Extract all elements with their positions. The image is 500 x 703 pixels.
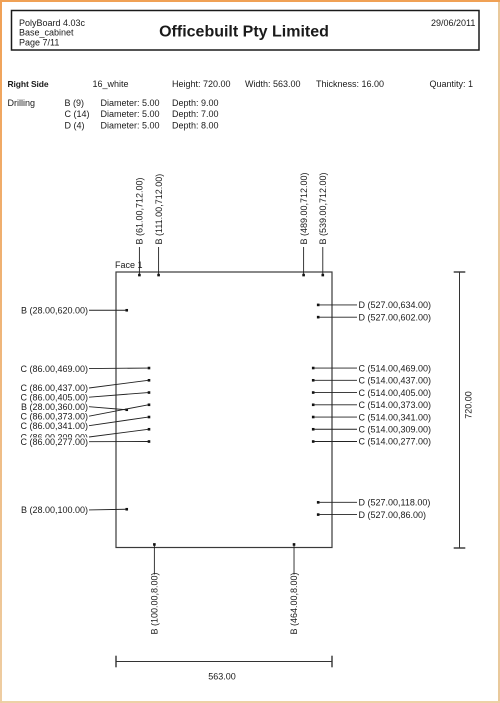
hole C (514.00,277.00): label	[359, 437, 432, 447]
hole C (86.00,373.00): leader	[89, 405, 148, 416]
page border top	[0, 0, 500, 2]
hole C (514.00,309.00): leader	[314, 428, 357, 430]
svg-text:C (514.00,277.00): C (514.00,277.00)	[359, 437, 432, 447]
svg-text:B (28.00,100.00): B (28.00,100.00)	[21, 505, 88, 515]
hole B (61.00,712.00): label	[135, 177, 145, 244]
hole B (489.00,712.00): leader	[303, 247, 305, 275]
header text Base_cabinet	[19, 28, 74, 38]
hole C (86.00,341.00): leader	[89, 417, 148, 426]
svg-text:C (514.00,405.00): C (514.00,405.00)	[359, 388, 432, 398]
hole D (527.00,634.00): label	[359, 300, 432, 310]
svg-text:Diameter: 5.00: Diameter: 5.00	[101, 109, 160, 119]
hole C (514.00,469.00): leader	[314, 367, 357, 369]
svg-text:563.00: 563.00	[208, 672, 236, 682]
hole C (86.00,469.00): leader	[89, 367, 148, 370]
hole B (28.00,100.00): dot	[125, 508, 128, 511]
hole C (86.00,309.00): dot	[148, 428, 151, 431]
header box	[12, 11, 480, 51]
hole B (539.00,712.00): dot	[321, 274, 324, 277]
hole C (514.00,277.00): leader	[314, 441, 357, 443]
info row: Quantity	[430, 79, 474, 89]
info row: 16_white	[93, 79, 129, 89]
svg-text:D (527.00,118.00): D (527.00,118.00)	[359, 498, 431, 508]
vertical dimension text 720.00	[464, 391, 474, 419]
hole C (86.00,309.00): leader	[89, 429, 148, 437]
svg-text:Base_cabinet: Base_cabinet	[19, 28, 74, 38]
hole B (28.00,360.00): dot	[125, 408, 128, 411]
svg-text:Face 1: Face 1	[115, 260, 143, 270]
hole B (464.00,8.00): label	[289, 572, 299, 634]
horizontal dimension line 563.00	[116, 656, 332, 668]
svg-text:Officebuilt Pty Limited: Officebuilt Pty Limited	[159, 24, 329, 41]
hole C (514.00,469.00): dot	[312, 367, 315, 370]
svg-text:Depth: 9.00: Depth: 9.00	[172, 98, 219, 108]
hole D (527.00,86.00): dot	[317, 513, 320, 516]
svg-text:C (86.00,277.00): C (86.00,277.00)	[20, 437, 88, 447]
page border right	[498, 0, 500, 703]
drilling row D	[65, 120, 219, 130]
hole C (514.00,373.00): dot	[312, 403, 315, 406]
title Officebuilt Pty Limited	[159, 24, 329, 41]
hole C (514.00,373.00): leader	[314, 404, 357, 406]
hole B (61.00,712.00): leader	[138, 247, 140, 275]
svg-text:C (514.00,341.00): C (514.00,341.00)	[359, 412, 432, 422]
hole D (527.00,86.00): label	[359, 510, 427, 520]
svg-text:720.00: 720.00	[464, 391, 474, 419]
hole C (514.00,469.00): label	[359, 363, 432, 373]
hole B (28.00,620.00): dot	[125, 309, 128, 312]
hole B (111.00,712.00): label	[154, 174, 164, 245]
hole B (111.00,712.00): dot	[157, 274, 160, 277]
hole D (527.00,118.00): label	[359, 498, 431, 508]
svg-text:D (4): D (4)	[65, 120, 85, 130]
hole C (514.00,405.00): leader	[314, 392, 357, 394]
header text PolyBoard 4.03c	[19, 18, 86, 28]
svg-text:B (539.00,712.00): B (539.00,712.00)	[318, 172, 328, 244]
svg-text:C (86.00,469.00): C (86.00,469.00)	[20, 364, 88, 374]
svg-text:Diameter: 5.00: Diameter: 5.00	[101, 98, 160, 108]
hole B (464.00,8.00): dot	[293, 543, 296, 546]
hole B (100.00,8.00): dot	[153, 543, 156, 546]
hole D (527.00,634.00): leader	[319, 304, 357, 306]
hole C (86.00,437.00): dot	[148, 379, 151, 382]
hole C (86.00,405.00): dot	[148, 391, 151, 394]
svg-text:Diameter: 5.00: Diameter: 5.00	[101, 120, 160, 130]
svg-text:Depth: 7.00: Depth: 7.00	[172, 109, 219, 119]
panel outline	[116, 272, 332, 548]
svg-text:D (527.00,86.00): D (527.00,86.00)	[359, 510, 427, 520]
svg-text:Page 7/11: Page 7/11	[19, 38, 59, 48]
svg-text:Height: 720.00: Height: 720.00	[172, 79, 231, 89]
hole B (28.00,620.00): leader	[89, 309, 126, 311]
hole B (28.00,360.00): label	[21, 402, 88, 412]
svg-text:B (9): B (9)	[65, 98, 85, 108]
svg-text:D (527.00,634.00): D (527.00,634.00)	[359, 300, 432, 310]
drilling row label	[8, 98, 36, 108]
svg-text:Depth: 8.00: Depth: 8.00	[172, 120, 219, 130]
svg-text:29/06/2011: 29/06/2011	[431, 18, 475, 28]
hole C (86.00,373.00): dot	[148, 403, 151, 406]
hole D (527.00,602.00): dot	[317, 316, 320, 319]
svg-text:C (514.00,469.00): C (514.00,469.00)	[359, 363, 432, 373]
hole D (527.00,118.00): leader	[319, 501, 357, 503]
drilling row B	[65, 98, 219, 108]
hole C (86.00,341.00): dot	[148, 416, 151, 419]
hole B (111.00,712.00): leader	[158, 247, 160, 275]
hole C (86.00,437.00): leader	[89, 380, 148, 388]
Face 1 label	[115, 260, 143, 270]
hole D (527.00,118.00): dot	[317, 501, 320, 504]
header text Page 7/11	[19, 38, 59, 48]
hole C (514.00,309.00): dot	[312, 428, 315, 431]
hole B (28.00,620.00): label	[21, 306, 88, 316]
hole C (514.00,341.00): dot	[312, 416, 315, 419]
hole C (86.00,341.00): label	[20, 421, 88, 431]
svg-text:C (86.00,341.00): C (86.00,341.00)	[20, 421, 88, 431]
hole C (514.00,437.00): leader	[314, 379, 357, 381]
info row: Thickness	[316, 79, 384, 89]
hole C (514.00,309.00): label	[359, 425, 432, 435]
hole C (86.00,309.00): label	[20, 432, 88, 442]
hole D (527.00,634.00): dot	[317, 304, 320, 307]
hole C (514.00,405.00): label	[359, 388, 432, 398]
info row: Right Side	[8, 79, 49, 89]
hole D (527.00,86.00): leader	[319, 514, 357, 516]
svg-text:Thickness: 16.00: Thickness: 16.00	[316, 79, 384, 89]
svg-text:C (14): C (14)	[65, 109, 90, 119]
svg-text:B (100.00,8.00): B (100.00,8.00)	[150, 572, 160, 634]
hole C (514.00,373.00): label	[359, 400, 432, 410]
svg-text:C (514.00,309.00): C (514.00,309.00)	[359, 425, 432, 435]
hole C (86.00,469.00): dot	[148, 367, 151, 370]
hole D (527.00,602.00): leader	[319, 316, 357, 318]
hole C (514.00,405.00): dot	[312, 391, 315, 394]
drilling row C	[65, 109, 219, 119]
hole B (489.00,712.00): dot	[302, 274, 305, 277]
hole B (489.00,712.00): label	[299, 172, 309, 244]
hole C (514.00,437.00): label	[359, 376, 432, 386]
svg-text:C (514.00,437.00): C (514.00,437.00)	[359, 376, 432, 386]
hole D (527.00,602.00): label	[359, 312, 432, 322]
hole B (539.00,712.00): label	[318, 172, 328, 244]
hole B (28.00,100.00): leader	[89, 508, 126, 511]
hole B (28.00,100.00): label	[21, 505, 88, 515]
svg-text:B (111.00,712.00): B (111.00,712.00)	[154, 174, 164, 245]
svg-text:Right Side: Right Side	[8, 79, 49, 89]
hole C (86.00,277.00): leader	[89, 441, 148, 443]
hole C (86.00,469.00): label	[20, 364, 88, 374]
hole C (86.00,405.00): leader	[89, 393, 148, 398]
hole B (539.00,712.00): leader	[322, 247, 324, 275]
svg-text:B (464.00,8.00): B (464.00,8.00)	[289, 572, 299, 634]
vertical dimension line 720.00	[454, 272, 466, 548]
hole C (514.00,341.00): leader	[314, 416, 357, 418]
hole C (514.00,437.00): dot	[312, 379, 315, 382]
hole C (86.00,405.00): label	[20, 392, 88, 402]
svg-text:C (514.00,373.00): C (514.00,373.00)	[359, 400, 432, 410]
horizontal dimension text 563.00	[208, 672, 236, 682]
hole C (86.00,277.00): label	[20, 437, 89, 447]
svg-text:B (28.00,360.00): B (28.00,360.00)	[21, 402, 88, 412]
hole C (514.00,341.00): label	[359, 412, 432, 422]
svg-text:16_white: 16_white	[93, 79, 129, 89]
hole C (514.00,277.00): dot	[312, 440, 315, 443]
info row: Width	[245, 79, 301, 89]
info row: Height	[172, 79, 231, 89]
svg-text:B (489.00,712.00): B (489.00,712.00)	[299, 172, 309, 244]
page border bottom	[0, 701, 500, 703]
hole B (464.00,8.00): leader	[293, 546, 295, 575]
date 29/06/2011	[431, 18, 475, 28]
svg-text:C (86.00,405.00): C (86.00,405.00)	[20, 392, 88, 402]
hole C (86.00,437.00): label	[20, 383, 88, 393]
svg-text:Width: 563.00: Width: 563.00	[245, 79, 301, 89]
hole B (100.00,8.00): label	[150, 572, 160, 634]
svg-text:Quantity: 1: Quantity: 1	[430, 79, 474, 89]
hole C (86.00,277.00): dot	[148, 440, 151, 443]
hole B (100.00,8.00): leader	[153, 546, 155, 575]
svg-text:C (86.00,373.00): C (86.00,373.00)	[20, 411, 88, 421]
hole B (61.00,712.00): dot	[138, 274, 141, 277]
svg-text:PolyBoard 4.03c: PolyBoard 4.03c	[19, 18, 86, 28]
hole B (28.00,360.00): leader	[89, 407, 126, 410]
svg-text:B (61.00,712.00): B (61.00,712.00)	[135, 177, 145, 244]
svg-text:Drilling: Drilling	[8, 98, 36, 108]
page border left	[0, 0, 2, 703]
hole C (86.00,373.00): label	[20, 411, 88, 421]
svg-text:D (527.00,602.00): D (527.00,602.00)	[359, 312, 432, 322]
svg-text:B (28.00,620.00): B (28.00,620.00)	[21, 306, 88, 316]
